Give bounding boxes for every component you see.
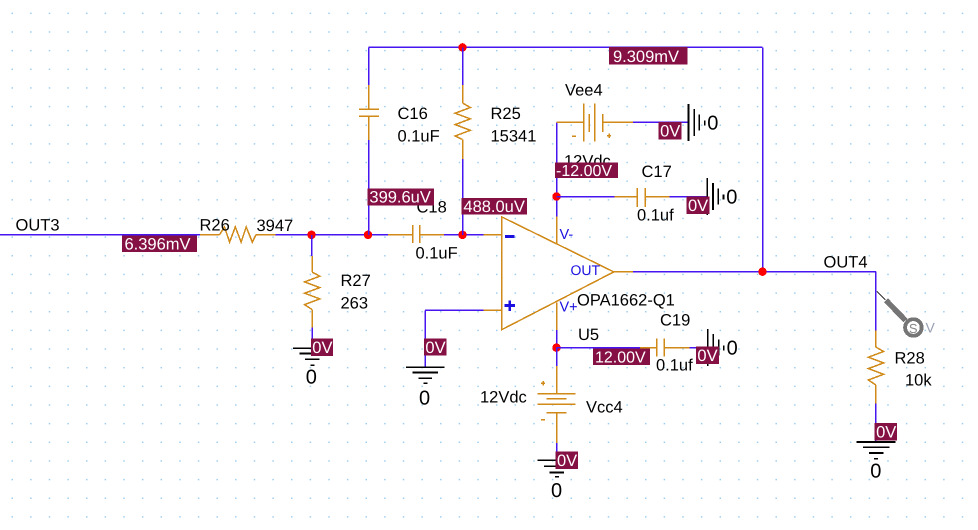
svg-text:OPA1662-Q1: OPA1662-Q1 — [577, 292, 675, 310]
resistor R26 — [200, 227, 275, 242]
svg-text:-12.00V: -12.00V — [556, 163, 612, 180]
capacitor C17 — [614, 188, 669, 207]
svg-text:0: 0 — [727, 338, 738, 360]
svg-text:Vee4: Vee4 — [565, 82, 603, 100]
wire R25 top — [462, 47, 464, 85]
svg-text:0.1uf: 0.1uf — [656, 357, 693, 375]
svg-text:OUT3: OUT3 — [16, 217, 60, 235]
bias label 0V at C17 ground — [687, 196, 710, 215]
svg-text:0: 0 — [707, 113, 718, 135]
bias label 488.0uV on opamp minus node — [461, 198, 527, 216]
junction V+ / Vcc4 / C19 node — [552, 344, 560, 352]
svg-text:0: 0 — [726, 187, 737, 209]
svg-text:R25: R25 — [491, 105, 521, 123]
wire C19 node horizontal — [557, 347, 641, 349]
ground 0 at plus input — [406, 367, 445, 383]
svg-text:0.1uF: 0.1uF — [416, 245, 458, 263]
svg-text:V-: V- — [560, 227, 574, 243]
bias label 0V at R28 ground — [875, 423, 897, 442]
svg-text:3947: 3947 — [257, 217, 294, 235]
junction at C16/C18 node — [364, 231, 372, 239]
resistor R25 — [455, 85, 470, 159]
svg-text:OUT4: OUT4 — [824, 254, 868, 272]
resistor R28 — [868, 331, 883, 404]
op-amp U5 OPA1662-Q1 — [484, 217, 634, 331]
bias label 0V at R27 ground — [311, 338, 333, 357]
svg-text:0.1uf: 0.1uf — [637, 207, 674, 225]
svg-text:263: 263 — [341, 295, 369, 313]
svg-text:C19: C19 — [660, 312, 690, 330]
bias label 0V at Vee4 ground — [659, 122, 682, 141]
opamp plus marker — [505, 300, 515, 311]
bias label -12.00V on V- net — [555, 162, 618, 179]
svg-text:S: S — [909, 321, 918, 336]
svg-text:0.1uF: 0.1uF — [398, 128, 440, 146]
capacitor C18 — [388, 225, 444, 243]
svg-text:C17: C17 — [642, 163, 672, 181]
junction at R25/C18/opamp node — [458, 231, 466, 239]
junction V- / C17 node — [552, 192, 560, 200]
junction at R26/R27 node — [307, 231, 315, 239]
svg-text:488.0uV: 488.0uV — [463, 198, 524, 216]
wire OUT4 down to R28 — [875, 272, 877, 331]
svg-text:10k: 10k — [905, 372, 932, 390]
wire feedback vertical right — [762, 47, 764, 271]
wire Vcc4 to ground — [556, 443, 558, 460]
svg-text:R28: R28 — [895, 350, 925, 368]
wire C19 to ground — [690, 347, 708, 349]
ground 0 under R27 — [293, 348, 332, 365]
svg-text:V+: V+ — [560, 300, 578, 316]
capacitor C19 — [640, 339, 689, 357]
svg-text:0V: 0V — [660, 123, 680, 141]
svg-text:6.396mV: 6.396mV — [125, 236, 191, 254]
wire V+ to junction — [556, 330, 558, 348]
bias label 6.396mV on OUT3 net — [122, 236, 197, 254]
ground 0 under R28 — [857, 442, 896, 459]
svg-text:Vcc4: Vcc4 — [586, 399, 623, 417]
svg-text:U5: U5 — [578, 326, 599, 344]
bias label 399.6uV on C16/C18 node — [367, 188, 433, 206]
wire plus input down to ground — [424, 310, 426, 367]
svg-text:12.00V: 12.00V — [595, 350, 646, 367]
wire C17 node horizontal — [557, 196, 615, 198]
wire R27 bottom to ground — [311, 328, 313, 349]
voltage probe on OUT4 — [877, 292, 936, 336]
ground 0 right of Vee4 (rotated) — [689, 104, 705, 141]
svg-text:0V: 0V — [312, 339, 332, 357]
svg-text:0V: 0V — [688, 197, 708, 215]
svg-text:15341: 15341 — [491, 128, 537, 146]
ground 0 right of C17 (rotated) — [707, 178, 723, 215]
bias label 0V at C19 ground — [696, 347, 719, 366]
junction feedback top at R25 — [458, 43, 466, 51]
svg-text:0: 0 — [306, 367, 317, 389]
opamp minus marker — [505, 235, 514, 238]
svg-text:0: 0 — [419, 387, 430, 409]
svg-text:0V: 0V — [697, 347, 717, 365]
svg-text:399.6uV: 399.6uV — [369, 189, 430, 207]
ground 0 under Vcc4 — [537, 460, 576, 477]
wire R27 top — [311, 235, 313, 256]
battery Vee4 — [557, 104, 634, 142]
wire Vee4 to ground — [633, 121, 689, 123]
ground 0 right of C19 (rotated) — [708, 329, 724, 366]
svg-text:0: 0 — [551, 480, 562, 502]
wire top feedback horizontal — [369, 46, 763, 48]
wire C16 bottom — [368, 140, 370, 235]
svg-text:R27: R27 — [341, 272, 371, 290]
wire C16 top — [368, 47, 370, 85]
svg-text:OUT: OUT — [571, 262, 601, 278]
svg-text:C16: C16 — [398, 105, 428, 123]
svg-text:0V: 0V — [876, 424, 896, 442]
wire C18 to opamp minus input — [444, 234, 483, 236]
wire OUT3 to R26 — [0, 234, 200, 236]
svg-text:V: V — [926, 320, 936, 336]
capacitor C16 — [359, 85, 379, 140]
resistor R27 — [305, 256, 320, 328]
bias label 0V at Vcc4 ground — [556, 451, 578, 470]
svg-text:9.309mV: 9.309mV — [613, 48, 679, 66]
svg-text:0V: 0V — [557, 452, 577, 470]
junction output / feedback — [758, 268, 766, 276]
wire plus input horizontal — [425, 309, 483, 311]
svg-text:R26: R26 — [200, 217, 230, 235]
bias label 9.309mV on feedback net — [609, 47, 688, 66]
wire R26 to C18 node — [276, 234, 389, 236]
bias label 0V at plus input ground — [424, 339, 447, 357]
wire R25 bottom — [462, 159, 464, 235]
wire R28 to ground — [875, 404, 877, 443]
svg-text:12Vdc: 12Vdc — [480, 389, 527, 407]
wire opamp output to OUT4 corner — [633, 271, 876, 273]
svg-text:0: 0 — [870, 460, 881, 482]
wire V- vertical — [556, 122, 558, 216]
wire Vcc4 top — [556, 348, 558, 366]
wire C17 to ground — [669, 196, 707, 198]
svg-text:0V: 0V — [425, 339, 445, 357]
bias label 12.00V on V+ net — [593, 349, 650, 367]
battery Vcc4 — [537, 366, 575, 443]
